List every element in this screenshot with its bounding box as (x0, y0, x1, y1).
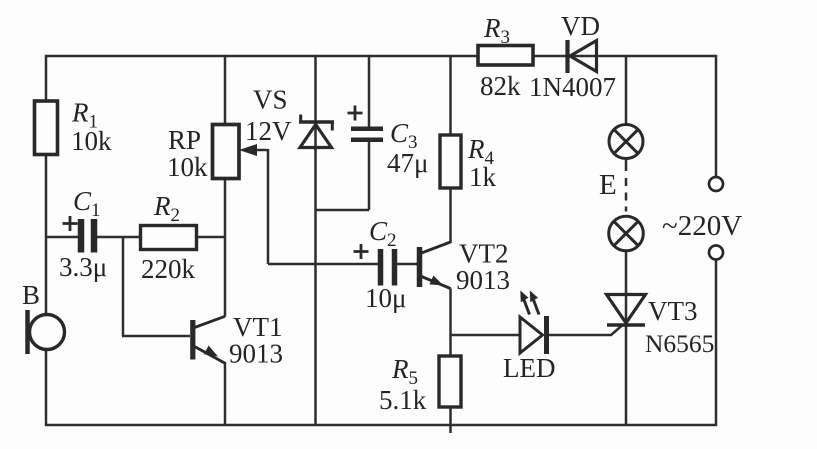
svg-text:B: B (22, 280, 40, 310)
lamp E2 (609, 216, 644, 251)
svg-text:VS: VS (253, 85, 288, 115)
wire left rail lower (45, 350, 48, 427)
wire RP bottom to VT1 collector (224, 179, 227, 317)
wire LED node to R5 (449, 335, 452, 356)
wire LED cathode to VT3 gate (549, 326, 622, 336)
label R1 (71, 98, 112, 157)
svg-text:LED: LED (503, 353, 555, 383)
wire top rail left segment (45, 55, 478, 58)
svg-text:47μ: 47μ (387, 148, 428, 178)
lamp E1 (609, 125, 643, 159)
label LED (503, 353, 555, 383)
wire VT2 emitter down to LED node (449, 289, 452, 336)
resistor R2 (141, 226, 197, 250)
wire VT1 base branch horizontal (122, 335, 190, 338)
wire C1 row from left rail (46, 236, 78, 239)
svg-text:~220V: ~220V (662, 210, 742, 242)
svg-text:10k: 10k (167, 152, 208, 182)
wire lamp1 to dashed section (625, 160, 628, 172)
label C2 (365, 216, 406, 313)
svg-text:VT2: VT2 (459, 239, 509, 269)
svg-text:10μ: 10μ (365, 283, 406, 313)
svg-text:12V: 12V (245, 116, 292, 146)
svg-text:VT3: VT3 (648, 296, 698, 326)
wire LED node to LED anode (451, 334, 521, 337)
label VS (245, 85, 292, 147)
wire C3 column bottom (368, 142, 371, 211)
wire right rail upper (715, 55, 718, 177)
wire left rail middle (45, 155, 48, 315)
LED (520, 291, 547, 355)
wire R4 to VT2 collector (449, 188, 452, 243)
svg-text:VT1: VT1 (233, 312, 283, 342)
svg-text:82k: 82k (480, 71, 521, 101)
svg-text:N6565: N6565 (645, 329, 714, 358)
label VT2 (456, 239, 510, 296)
wire VT1 emitter to bottom rail (224, 363, 227, 426)
wire C1 to R2 (97, 236, 141, 239)
svg-text:3.3μ: 3.3μ (59, 252, 107, 282)
svg-text:E: E (599, 169, 617, 201)
svg-text:1N4007: 1N4007 (529, 72, 616, 102)
svg-text:9013: 9013 (229, 339, 283, 369)
label B (22, 280, 40, 310)
svg-text:VD: VD (561, 11, 600, 41)
wire right rail lower (715, 260, 718, 427)
label R2 (141, 191, 196, 284)
wire wiper to C2 (268, 263, 378, 266)
svg-text:RP: RP (168, 125, 201, 155)
wire C3 column top (368, 55, 371, 128)
label C2 plus (354, 244, 369, 259)
wire VT1 base branch vertical (122, 237, 125, 336)
wire R2 to RP column (196, 236, 226, 239)
resistor R5 (439, 356, 461, 407)
wire VT3 cathode to bottom rail (625, 326, 628, 426)
label R3 (480, 13, 521, 101)
wire zener column top (314, 55, 317, 150)
svg-text:5.1k: 5.1k (379, 385, 427, 415)
wire top rail R3-to-right segment (533, 55, 716, 58)
label VT3 (645, 296, 714, 358)
transistor VT1 (193, 316, 226, 363)
resistor R1 (35, 101, 58, 155)
svg-text:1k: 1k (469, 162, 497, 192)
svg-text:9013: 9013 (456, 265, 510, 295)
label VT1 (229, 312, 283, 369)
wire zener column bottom (314, 148, 317, 427)
wire RP wiper horizontal (254, 149, 268, 152)
wire bottom rail (45, 424, 717, 427)
wire dashed lamp section E (625, 178, 628, 212)
label R4 (467, 134, 497, 192)
wire R5 to bottom rail (449, 407, 452, 433)
label 220V (662, 210, 742, 242)
capacitor C3 (351, 129, 383, 140)
label RP (167, 125, 208, 182)
transistor VT2 (420, 242, 451, 289)
label C1 (59, 186, 107, 282)
label C3 plus (348, 106, 363, 121)
capacitor C2 (381, 249, 395, 286)
thyristor VT3 (607, 295, 646, 326)
zener diode VS (299, 115, 334, 148)
wire lamp column top (625, 55, 628, 125)
potentiometer RP (213, 125, 258, 179)
wire left rail upper (45, 55, 48, 101)
resistor R3 (478, 46, 533, 66)
terminal bottom (709, 246, 723, 260)
label R5 (379, 354, 427, 415)
diode VD (568, 40, 597, 73)
label C3 (387, 118, 428, 178)
capacitor C1 (81, 219, 94, 253)
wire lamp2 to VT3 anode (625, 251, 628, 324)
wire RP column top (224, 55, 227, 125)
wire C2 to VT2 base (396, 263, 420, 266)
wire R4 column top (449, 55, 452, 135)
wire C3 to zener column (316, 209, 370, 212)
resistor R4 (440, 135, 461, 188)
svg-text:220k: 220k (141, 254, 196, 284)
microphone B (28, 310, 65, 354)
svg-text:10k: 10k (71, 126, 112, 156)
label E (599, 169, 617, 201)
label C1 plus (63, 216, 78, 231)
terminal top (709, 177, 723, 191)
wire RP wiper vertical (267, 149, 270, 264)
label VD (529, 11, 616, 102)
